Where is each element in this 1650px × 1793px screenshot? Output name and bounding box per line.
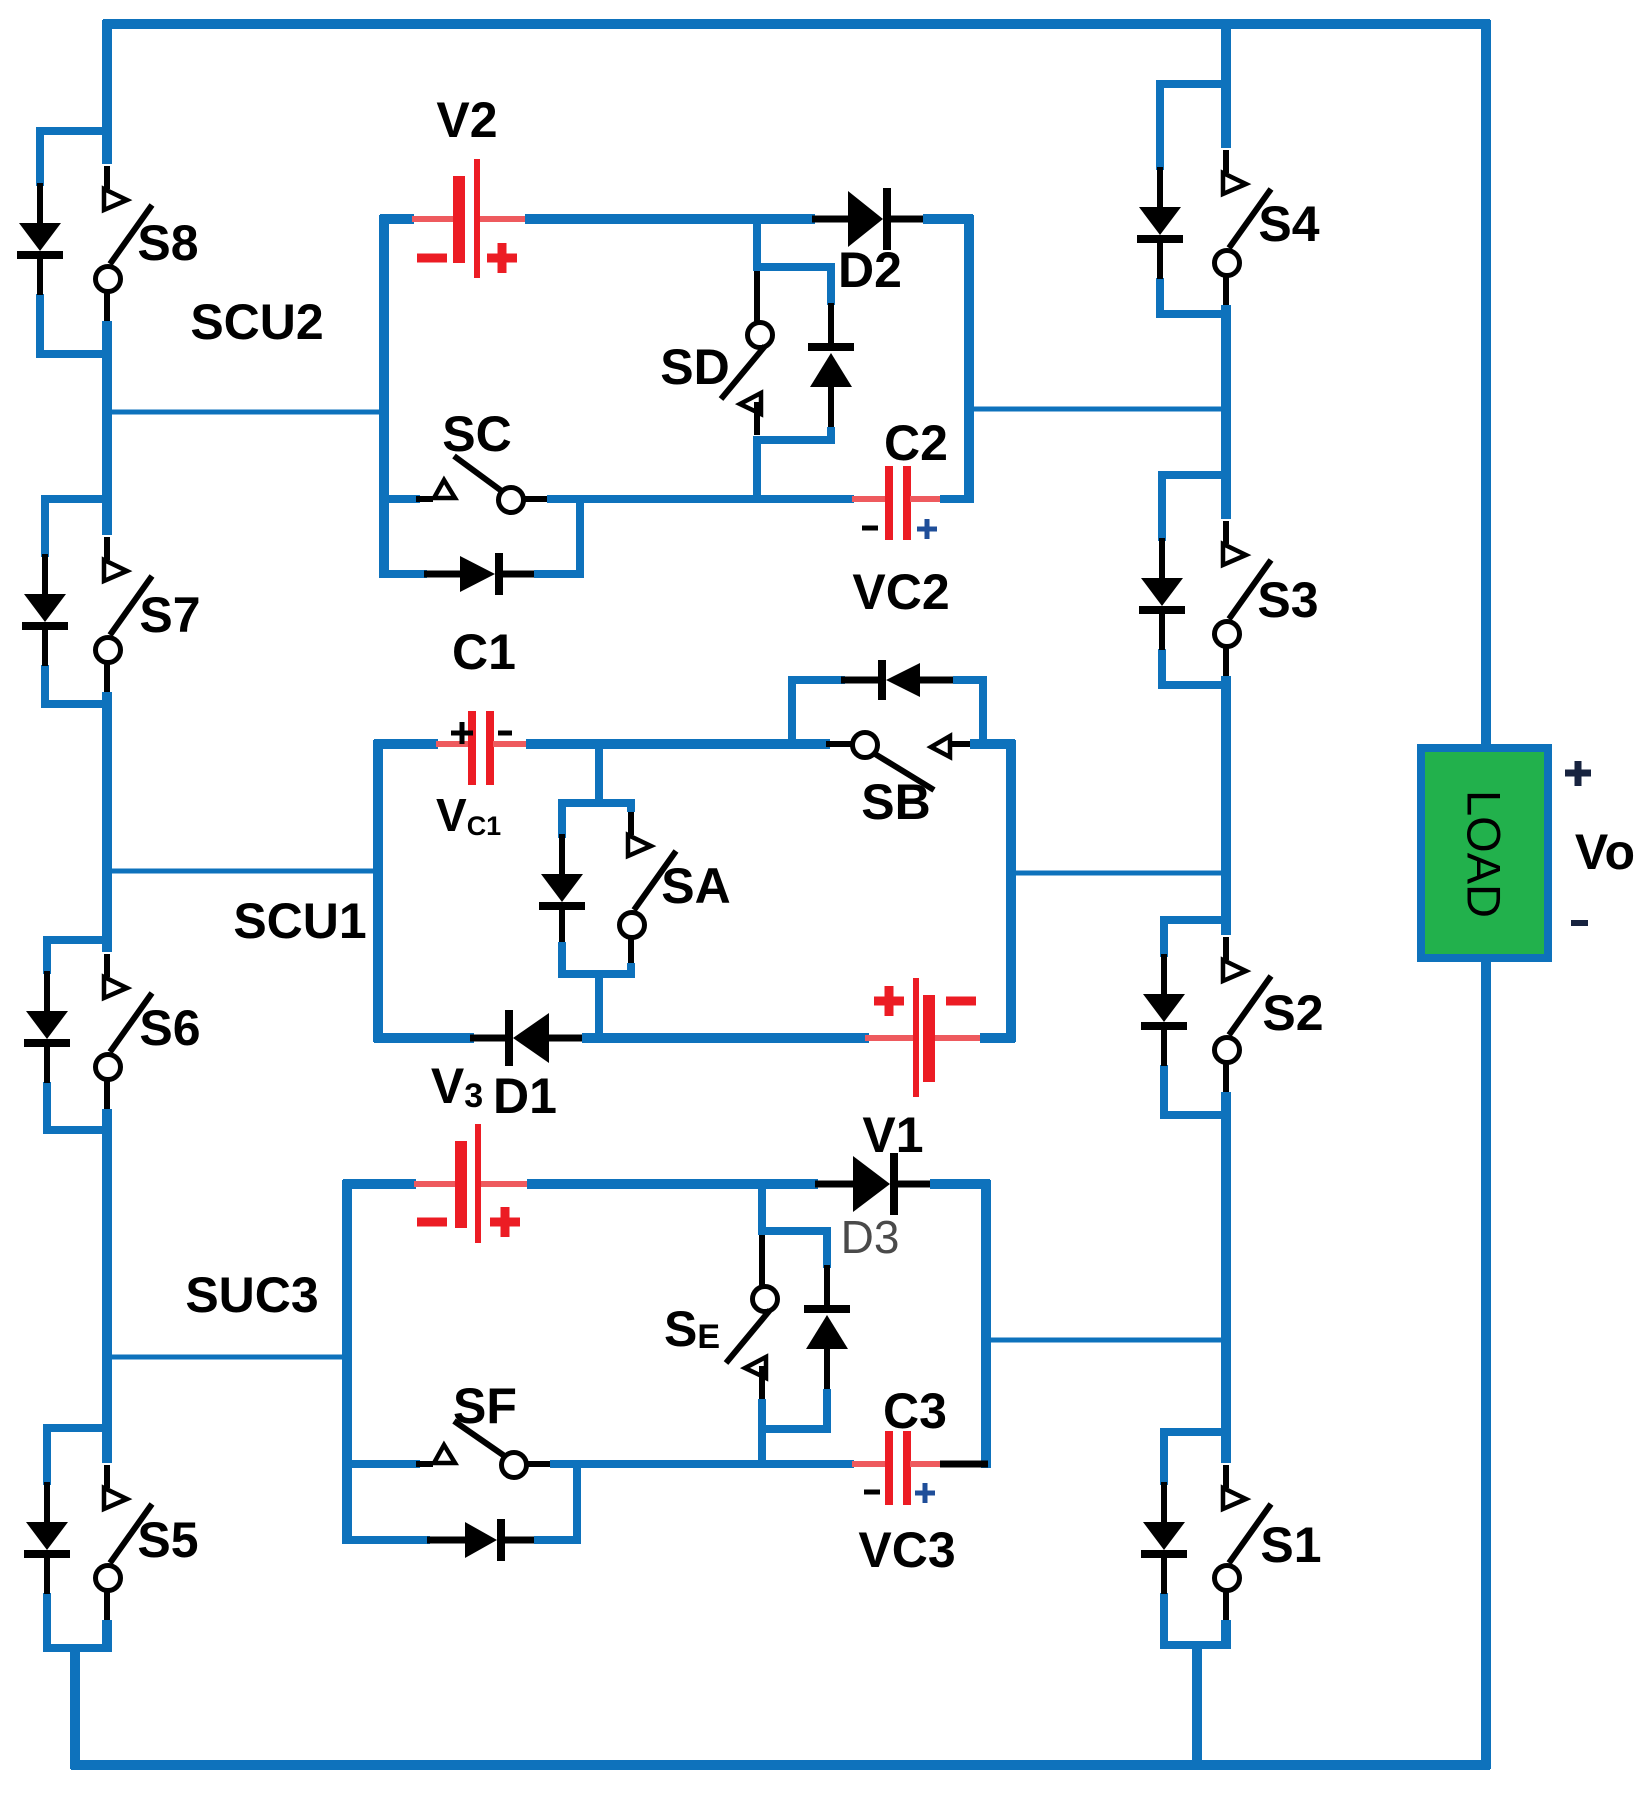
- wire S8 diode branch lower: [36, 294, 44, 358]
- diode SF bypass: [427, 1537, 465, 1544]
- wire SCU2 top segment right: [923, 214, 973, 224]
- wire left rail segment 3: [102, 692, 112, 952]
- wire inner right rail segment 1: [1221, 20, 1231, 148]
- wire SCU2 right vertical: [964, 215, 974, 503]
- wire left rail segment 1: [102, 20, 112, 164]
- switch S5: [104, 1465, 110, 1488]
- wire SCU1 bottom segment middle: [582, 1033, 869, 1043]
- wire SCU1 right vertical: [1006, 740, 1016, 1042]
- wire S4 bottom stub: [1158, 310, 1231, 318]
- wire S1 bottom stub: [1160, 1641, 1231, 1649]
- switch SD: [754, 271, 760, 322]
- wire S3 top stub: [1160, 471, 1231, 479]
- svg-text:VC3: VC3: [858, 1522, 955, 1578]
- wire SUC3 right vertical: [981, 1180, 991, 1468]
- battery V3: [414, 1181, 456, 1187]
- wire S2 bottom stub: [1160, 1111, 1231, 1119]
- wire SCU1 bottom segment left: [374, 1033, 474, 1043]
- wire S2 top stub: [1160, 916, 1231, 924]
- wire left rail segment 4: [102, 1109, 112, 1463]
- diode D3: [815, 1181, 853, 1188]
- wire left rail segment 5: [102, 1620, 112, 1652]
- wire S6 bottom stub: [43, 1126, 111, 1134]
- wire bottom bus: [71, 1760, 1490, 1770]
- wire node SUC3-left branch: [103, 1355, 349, 1360]
- svg-text:SE: SE: [664, 1301, 720, 1357]
- wire C2 to right vertical: [940, 495, 973, 503]
- wire top bus: [103, 19, 1490, 29]
- svg-text:C2: C2: [884, 415, 948, 471]
- diode D2: [812, 216, 848, 223]
- wire S8 top stub: [36, 127, 111, 135]
- wire SA switch branch lower: [627, 963, 635, 978]
- wire S7 bottom stub: [41, 700, 111, 708]
- wire SUC3 top segment right: [930, 1179, 990, 1189]
- svg-text:S6: S6: [139, 1000, 200, 1056]
- wire SD-D2clamp bottom tee: [753, 436, 835, 444]
- switch SF: [416, 1461, 433, 1467]
- wire S2 diode branch lower: [1160, 1065, 1168, 1119]
- wire SF bypass loop bottom right: [534, 1536, 581, 1544]
- wire SA bottom stub: [558, 970, 635, 978]
- signs C2 polarity: [862, 526, 878, 531]
- wire SE branch drop: [758, 1180, 766, 1235]
- switch S1: [1223, 1465, 1229, 1488]
- wire SCU1 top segment left: [374, 739, 438, 749]
- svg-text:S8: S8: [137, 215, 198, 271]
- wire S2 diode branch upper: [1160, 916, 1168, 957]
- wire SE clamp diode branch upper: [823, 1227, 831, 1268]
- battery V1: [865, 1035, 913, 1041]
- diode of SE clamp branch: [824, 1265, 830, 1305]
- wire SB loop left vertical: [788, 676, 796, 748]
- wire SE clamp diode branch lower: [823, 1389, 831, 1433]
- svg-text:VC1: VC1: [436, 789, 501, 841]
- svg-text:LOAD: LOAD: [1458, 790, 1511, 918]
- wire inner right rail segment 2: [1221, 305, 1231, 519]
- wire node SCU2-left branch: [103, 410, 384, 415]
- svg-text:VC2: VC2: [852, 564, 949, 620]
- wire right outer rail upper: [1481, 20, 1491, 752]
- wire SCU1 left vertical: [373, 740, 383, 1042]
- switch S6: [104, 954, 110, 977]
- diode antiparallel with S6: [44, 971, 50, 1013]
- wire S7 diode branch upper: [41, 495, 49, 557]
- wire SF line right: [550, 1460, 854, 1468]
- wire SB loop top right: [953, 676, 987, 684]
- wire inner right rail segment 5: [1221, 1620, 1231, 1649]
- wire SCU2 top segment left: [380, 214, 414, 224]
- diode of SD clamp branch: [828, 303, 834, 343]
- svg-text:S1: S1: [1260, 1517, 1321, 1573]
- svg-text:S3: S3: [1257, 572, 1318, 628]
- diode antiparallel with SA: [559, 834, 565, 876]
- diode antiparallel with S5: [44, 1482, 50, 1524]
- wire node SCU1-left branch: [103, 869, 380, 874]
- diode antiparallel with S8: [37, 183, 43, 225]
- wire S3 diode branch lower: [1158, 649, 1166, 689]
- svg-text:SF: SF: [453, 1378, 517, 1434]
- wire SF line left: [343, 1460, 420, 1468]
- svg-text:SD: SD: [660, 339, 729, 395]
- svg-text:D3: D3: [841, 1211, 900, 1263]
- svg-text:SCU2: SCU2: [190, 294, 323, 350]
- wire SA top stub: [558, 799, 635, 807]
- wire SB loop right vertical: [979, 676, 987, 748]
- wire SB loop top left: [788, 676, 845, 684]
- wire SUC3 left vertical: [342, 1180, 352, 1544]
- signs C1 polarity: [451, 731, 473, 736]
- svg-text:S7: S7: [139, 587, 200, 643]
- switch SC: [416, 496, 433, 502]
- wire inner right rail bottom drop: [1192, 1641, 1202, 1769]
- wire S1 top stub: [1160, 1428, 1231, 1436]
- wire SD-D2clamp top tee: [753, 263, 835, 271]
- wire SC bypass loop right vertical: [576, 495, 584, 578]
- wire SE-D3clamp bottom tee: [758, 1425, 831, 1433]
- svg-text:S5: S5: [137, 1512, 198, 1568]
- svg-text:Vo: Vo: [1575, 824, 1635, 880]
- wire SD clamp diode branch lower: [827, 427, 835, 444]
- capacitor C3: [852, 1461, 887, 1467]
- diode antiparallel with SB: [841, 677, 878, 684]
- diode SC bypass: [424, 571, 460, 578]
- wire SE branch continue: [758, 1399, 766, 1468]
- switch SA leads: [627, 799, 635, 812]
- svg-text:V3: V3: [431, 1058, 483, 1115]
- wire S5 top stub: [43, 1424, 111, 1432]
- wire S6 top stub: [43, 936, 111, 944]
- battery V2: [412, 216, 454, 222]
- switch SE: [759, 1235, 765, 1286]
- wire SCU2 left vertical: [379, 215, 389, 578]
- wire SCU1 top segment right: [970, 739, 1015, 749]
- diode antiparallel with S1: [1161, 1482, 1167, 1524]
- wire SCU1 bottom segment right: [980, 1033, 1015, 1043]
- svg-text:SCU1: SCU1: [233, 893, 366, 949]
- wire node C SUC3 to right rail: [982, 1338, 1229, 1343]
- wire SCU1 top segment middle: [526, 739, 830, 749]
- svg-text:V2: V2: [436, 92, 497, 148]
- wire S3 bottom stub: [1160, 681, 1231, 689]
- switch SB: [826, 741, 852, 747]
- capacitor C1: [436, 741, 470, 747]
- wire SF bypass loop right vertical: [573, 1460, 581, 1544]
- wire node B SCU1 to right rail: [1007, 871, 1229, 876]
- wire SCU2 top segment middle: [525, 214, 815, 224]
- wire SC line right: [547, 495, 854, 503]
- svg-text:S4: S4: [1258, 196, 1319, 252]
- wire SA diode branch lower: [558, 942, 566, 978]
- svg-text:D2: D2: [838, 242, 902, 298]
- wire C3 to right vertical black: [940, 1461, 988, 1468]
- wire SF bypass loop bottom: [343, 1536, 430, 1544]
- wire S6 diode branch lower: [43, 1082, 51, 1134]
- switch SA: [628, 812, 634, 835]
- wire SE-D3clamp top tee: [758, 1227, 831, 1235]
- svg-text:C3: C3: [883, 1383, 947, 1439]
- svg-text:C1: C1: [452, 624, 516, 680]
- wire S3 diode branch upper: [1158, 471, 1166, 541]
- wire inner right rail segment 4: [1221, 1092, 1231, 1463]
- wire S6 diode branch upper: [43, 936, 51, 974]
- wire node A SCU2 to right rail: [965, 407, 1229, 412]
- svg-text:S2: S2: [1262, 985, 1323, 1041]
- diode antiparallel with S7: [42, 554, 48, 596]
- switch S3: [1223, 521, 1229, 544]
- wire SUC3 top segment left: [343, 1179, 416, 1189]
- wire inner right rail segment 3: [1221, 676, 1231, 935]
- wire SA lower riser: [595, 970, 603, 1042]
- wire SD clamp diode branch upper: [827, 263, 835, 305]
- svg-text:SA: SA: [661, 858, 730, 914]
- switch S7: [104, 537, 110, 560]
- switch S8: [104, 166, 110, 189]
- wire SC bypass loop bottom: [380, 570, 427, 578]
- wire bottom-left drop: [70, 1644, 80, 1769]
- svg-text:SUC3: SUC3: [185, 1267, 318, 1323]
- svg-text:SB: SB: [861, 774, 930, 830]
- wire S7 diode branch lower: [41, 665, 49, 708]
- wire S8 diode branch upper: [36, 127, 44, 186]
- wire SC bypass loop bottom right: [534, 570, 584, 578]
- wire SD branch drop: [753, 215, 761, 270]
- wire S5 diode branch upper: [43, 1424, 51, 1485]
- diode antiparallel with S2: [1161, 954, 1167, 996]
- wire SA riser: [595, 740, 603, 807]
- diode antiparallel with S3: [1159, 538, 1165, 580]
- capacitor C2: [852, 496, 887, 502]
- wire right outer rail lower: [1481, 954, 1491, 1769]
- wire left rail segment 2: [102, 321, 112, 535]
- wire S5 diode branch lower: [43, 1593, 51, 1652]
- wire S4 top stub: [1158, 80, 1231, 88]
- load box: [1421, 748, 1548, 958]
- wire S8 bottom stub: [36, 350, 111, 358]
- sign minus of Vo: [1571, 920, 1588, 926]
- sign plus of Vo: [1565, 770, 1591, 777]
- wire SA diode branch upper: [558, 799, 566, 838]
- diode antiparallel with S4: [1157, 167, 1163, 209]
- wire S1 diode branch upper: [1160, 1428, 1168, 1485]
- wire S4 diode branch lower: [1156, 278, 1164, 318]
- svg-text:SC: SC: [442, 406, 511, 462]
- svg-text:D1: D1: [493, 1068, 557, 1124]
- wire SD branch continue: [753, 436, 761, 503]
- wire S7 top stub: [41, 495, 111, 503]
- wire SC line left: [380, 495, 420, 503]
- switch S4: [1223, 150, 1229, 173]
- wire S5 bottom stub: [43, 1644, 111, 1652]
- wire S4 diode branch upper: [1156, 80, 1164, 170]
- diode D1: [470, 1035, 505, 1042]
- wire SUC3 top segment middle: [527, 1179, 818, 1189]
- wire S1 diode branch lower: [1160, 1593, 1168, 1649]
- signs C3 polarity: [864, 1490, 880, 1495]
- switch S2: [1223, 937, 1229, 960]
